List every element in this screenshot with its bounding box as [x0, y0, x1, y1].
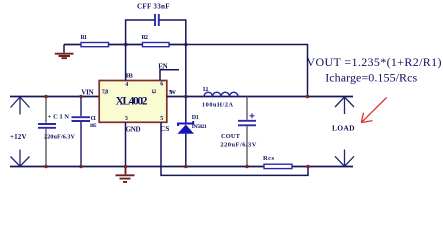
annotation Icharge formula	[325, 71, 417, 85]
wire bottom rail	[10, 166, 353, 168]
wire R1 to node A	[109, 44, 126, 46]
red pointer arrow	[361, 97, 386, 122]
svg-text:R2: R2	[142, 35, 149, 41]
pin CS (5) wire	[160, 116, 308, 175]
load terminal arrow down	[335, 150, 354, 167]
node Rcs right junction	[306, 165, 310, 169]
node COUT bottom junction	[245, 165, 249, 169]
svg-text:6: 6	[160, 82, 163, 88]
wire CFF loop left and top	[126, 20, 155, 45]
svg-text:+12V: +12V	[10, 133, 27, 141]
capacitor CIN	[38, 97, 76, 167]
pin GND (3) wire to ground	[125, 116, 141, 167]
wire top rail left (VIN rail)	[10, 96, 99, 98]
ground symbol below GND pin	[116, 167, 135, 182]
svg-text:D1: D1	[192, 115, 199, 121]
svg-text:L1: L1	[203, 87, 209, 93]
svg-text:5: 5	[160, 116, 163, 122]
node diode anode junction	[184, 165, 188, 169]
svg-text:220uF/6.3V: 220uF/6.3V	[220, 142, 256, 149]
inductor L1	[202, 87, 238, 108]
svg-text:IN5821: IN5821	[192, 124, 207, 130]
svg-text:SW: SW	[169, 89, 177, 96]
wire R2 to node B	[169, 44, 186, 46]
node GND crossing junction	[124, 165, 128, 169]
wire node A to R2	[126, 44, 143, 46]
wire node B down to SW node	[185, 45, 187, 97]
annotation VOUT formula	[307, 55, 442, 69]
capacitor CFF	[137, 3, 170, 27]
resistor R1	[81, 35, 109, 47]
svg-text:220uF/6.3V: 220uF/6.3V	[44, 134, 76, 141]
load terminal arrow up	[335, 97, 354, 114]
wire node B right to feedback corner	[186, 45, 308, 97]
svg-text:3: 3	[125, 116, 128, 122]
svg-text:VOUT =1.235*(1+R2/R1): VOUT =1.235*(1+R2/R1)	[307, 55, 442, 69]
node feedback junction on output rail	[306, 95, 310, 99]
svg-text:CFF 33nF: CFF 33nF	[137, 3, 170, 11]
svg-text:FB: FB	[126, 72, 134, 79]
node A junction	[124, 43, 128, 47]
svg-text:+CIN: +CIN	[48, 114, 70, 121]
input terminal arrow down (-)	[11, 150, 30, 167]
svg-text:4: 4	[125, 82, 128, 88]
capacitor COUT	[220, 97, 256, 167]
pin FB (4)	[125, 72, 133, 88]
resistor Rcs	[263, 155, 292, 169]
node SW junction	[184, 95, 188, 99]
svg-text:Icharge=0.155/Rcs: Icharge=0.155/Rcs	[325, 71, 417, 85]
wire ground to R1	[64, 44, 81, 46]
svg-text:XL4002: XL4002	[116, 96, 148, 108]
input terminal arrow up (+)	[11, 97, 30, 115]
svg-text:VIN: VIN	[81, 89, 94, 97]
ground symbol top left	[55, 45, 74, 59]
node B junction	[184, 43, 188, 47]
capacitor C1	[72, 97, 97, 167]
pin SW (1,2)	[151, 89, 176, 96]
node CIN top junction	[44, 95, 48, 99]
node C1 top junction	[79, 95, 83, 99]
node CIN bottom junction	[44, 165, 48, 169]
diode D1 IN5821	[178, 97, 208, 167]
pin VIN (7,8)	[81, 89, 108, 97]
label +12V	[10, 133, 27, 141]
svg-text:COUT: COUT	[221, 133, 241, 140]
svg-text:EN: EN	[158, 62, 168, 70]
svg-text:LOAD: LOAD	[332, 124, 355, 133]
svg-text:1,2: 1,2	[151, 89, 156, 95]
node C1 bottom junction	[79, 165, 83, 169]
svg-text:Rcs: Rcs	[263, 155, 274, 162]
svg-text:105: 105	[90, 123, 97, 129]
svg-text:C1: C1	[91, 116, 97, 122]
svg-text:7,8: 7,8	[102, 89, 109, 95]
wire FB vertical (node A to FB pin)	[125, 45, 127, 81]
svg-text:GND: GND	[126, 125, 141, 133]
svg-text:100uH/2A: 100uH/2A	[202, 101, 234, 108]
op-amp U1 XL4002 body	[99, 81, 167, 123]
label LOAD	[332, 124, 355, 133]
pin EN (6) wire stub	[158, 62, 179, 87]
wire SW rail (output)	[167, 96, 353, 98]
resistor R2	[142, 35, 170, 47]
svg-text:CS: CS	[160, 125, 169, 133]
svg-text:R1: R1	[81, 35, 88, 41]
wire CFF loop right side	[160, 20, 186, 45]
